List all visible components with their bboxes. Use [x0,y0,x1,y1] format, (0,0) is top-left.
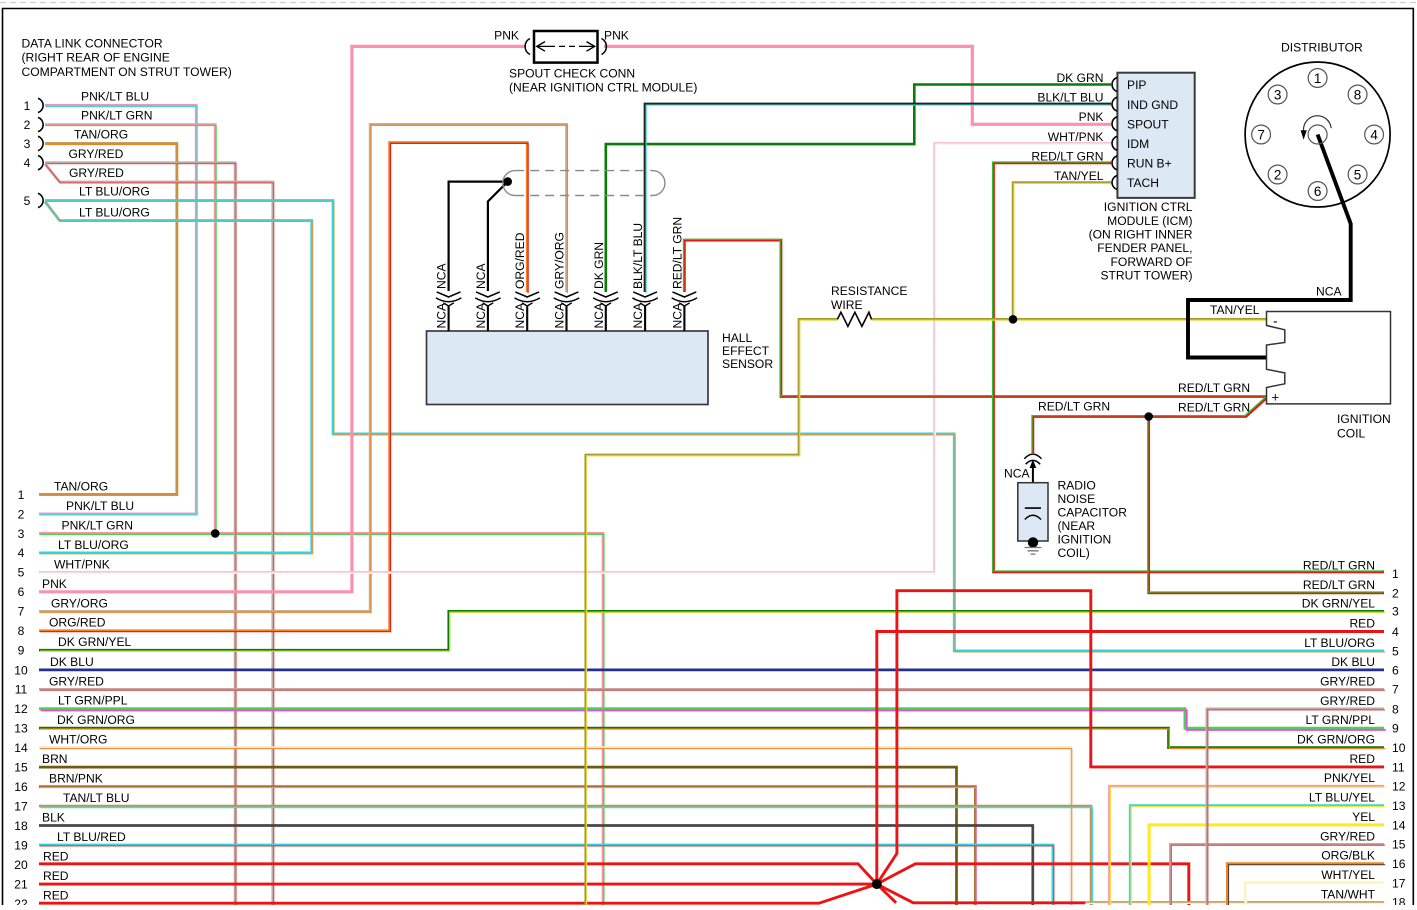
svg-text:GRY/RED: GRY/RED [1320,694,1375,708]
svg-text:PNK: PNK [1079,110,1104,124]
svg-text:NCA: NCA [670,302,684,328]
svg-text:ORG/BLK: ORG/BLK [1321,849,1375,863]
svg-text:COIL): COIL) [1058,546,1090,560]
svg-text:18: 18 [1392,896,1406,905]
svg-text:TACH: TACH [1127,176,1159,190]
svg-text:-: - [1273,313,1278,329]
svg-text:RED/LT GRN: RED/LT GRN [1178,381,1250,395]
svg-text:16: 16 [14,780,28,794]
svg-text:LT BLU/ORG: LT BLU/ORG [58,538,129,552]
svg-text:13: 13 [14,722,28,736]
svg-text:LT BLU/RED: LT BLU/RED [57,830,126,844]
svg-text:NCA: NCA [435,263,449,289]
svg-text:3: 3 [18,527,25,541]
svg-text:RED/LT GRN: RED/LT GRN [1303,559,1375,573]
svg-text:WHT/YEL: WHT/YEL [1321,868,1375,882]
svg-text:RED/LT GRN: RED/LT GRN [1031,149,1103,163]
svg-text:4: 4 [1370,127,1378,142]
svg-text:ORG/RED: ORG/RED [513,232,527,289]
svg-text:(RIGHT REAR OF ENGINE: (RIGHT REAR OF ENGINE [22,51,170,65]
svg-text:14: 14 [14,741,28,755]
svg-text:HALL: HALL [722,331,753,345]
svg-text:GRY/RED: GRY/RED [69,147,124,161]
svg-text:(NEAR IGNITION CTRL MODULE): (NEAR IGNITION CTRL MODULE) [509,81,697,95]
svg-text:WHT/PNK: WHT/PNK [1048,130,1104,144]
svg-text:TAN/YEL: TAN/YEL [1054,169,1104,183]
svg-text:COIL: COIL [1337,427,1366,441]
svg-text:GRY/RED: GRY/RED [1320,829,1375,843]
svg-text:WIRE: WIRE [831,298,863,312]
svg-text:1: 1 [24,99,31,113]
svg-text:1: 1 [1314,71,1322,86]
svg-text:NCA: NCA [435,302,449,328]
svg-text:BLK/LT BLU: BLK/LT BLU [1037,91,1103,105]
svg-text:GRY/ORG: GRY/ORG [51,596,108,610]
svg-text:4: 4 [1392,625,1399,639]
svg-text:1: 1 [18,488,25,502]
svg-text:BLK: BLK [42,811,65,825]
svg-text:SPOUT: SPOUT [1127,117,1169,131]
svg-text:2: 2 [18,507,25,521]
svg-text:DATA LINK CONNECTOR: DATA LINK CONNECTOR [22,37,163,51]
svg-text:7: 7 [18,605,25,619]
svg-text:GRY/RED: GRY/RED [69,166,124,180]
svg-text:RED: RED [1349,617,1375,631]
svg-text:DK GRN/YEL: DK GRN/YEL [1302,596,1376,610]
svg-text:SPOUT CHECK CONN: SPOUT CHECK CONN [509,67,635,81]
svg-text:IND GND: IND GND [1127,98,1178,112]
svg-text:STRUT TOWER): STRUT TOWER) [1100,269,1192,283]
svg-text:NOISE: NOISE [1058,492,1096,506]
svg-text:8: 8 [1392,702,1399,716]
svg-text:DK GRN: DK GRN [592,242,606,289]
svg-text:LT BLU/YEL: LT BLU/YEL [1309,791,1375,805]
svg-text:20: 20 [14,858,28,872]
svg-text:BLK/LT BLU: BLK/LT BLU [631,223,645,289]
svg-text:12: 12 [14,702,28,716]
svg-text:BRN/PNK: BRN/PNK [49,772,103,786]
svg-text:LT BLU/ORG: LT BLU/ORG [1304,636,1375,650]
svg-text:COMPARTMENT ON STRUT TOWER): COMPARTMENT ON STRUT TOWER) [22,65,232,79]
svg-text:15: 15 [14,761,28,775]
svg-text:RED: RED [43,850,69,864]
svg-text:IDM: IDM [1127,137,1149,151]
svg-text:DK BLU: DK BLU [50,655,94,669]
svg-text:DISTRIBUTOR: DISTRIBUTOR [1281,40,1363,54]
svg-text:GRY/RED: GRY/RED [49,674,104,688]
svg-text:TAN/LT BLU: TAN/LT BLU [63,791,130,805]
svg-text:LT BLU/ORG: LT BLU/ORG [79,185,150,199]
svg-text:DK GRN/ORG: DK GRN/ORG [57,713,135,727]
svg-text:14: 14 [1392,818,1406,832]
svg-text:NCA: NCA [474,263,488,289]
svg-text:RED/LT GRN: RED/LT GRN [1178,401,1250,415]
svg-text:DK BLU: DK BLU [1331,655,1375,669]
svg-text:WHT/PNK: WHT/PNK [54,557,110,571]
svg-text:NCA: NCA [631,302,645,328]
svg-text:NCA: NCA [513,302,527,328]
svg-text:8: 8 [1354,87,1362,102]
svg-text:NCA: NCA [1004,466,1030,480]
svg-text:RED: RED [43,888,69,902]
svg-text:TAN/WHT: TAN/WHT [1321,887,1376,901]
svg-text:6: 6 [1314,184,1322,199]
svg-text:PNK: PNK [42,577,67,591]
svg-text:8: 8 [18,624,25,638]
svg-text:21: 21 [14,878,28,892]
svg-text:6: 6 [18,585,25,599]
svg-text:5: 5 [24,194,31,208]
svg-text:PNK/LT BLU: PNK/LT BLU [81,90,149,104]
svg-text:9: 9 [1392,722,1399,736]
svg-text:4: 4 [24,156,31,170]
svg-text:3: 3 [1274,87,1282,102]
svg-text:PNK/LT GRN: PNK/LT GRN [81,109,152,123]
svg-text:(NEAR: (NEAR [1058,519,1096,533]
svg-text:RED/LT GRN: RED/LT GRN [1038,400,1110,414]
svg-text:2: 2 [24,118,31,132]
svg-text:DK GRN/YEL: DK GRN/YEL [58,635,132,649]
svg-text:+: + [1272,390,1280,405]
svg-text:LT GRN/PPL: LT GRN/PPL [58,694,128,708]
svg-text:BRN: BRN [42,752,68,766]
svg-text:PNK/LT BLU: PNK/LT BLU [66,499,134,513]
svg-text:17: 17 [14,799,28,813]
svg-text:IGNITION: IGNITION [1337,412,1391,426]
svg-text:16: 16 [1392,857,1406,871]
svg-text:22: 22 [14,897,28,905]
svg-text:TAN/ORG: TAN/ORG [54,479,108,493]
svg-text:RUN B+: RUN B+ [1127,157,1172,171]
svg-text:LT GRN/PPL: LT GRN/PPL [1306,713,1376,727]
svg-text:IGNITION CTRL: IGNITION CTRL [1104,200,1193,214]
svg-text:TAN/YEL: TAN/YEL [1210,303,1260,317]
svg-text:PNK/YEL: PNK/YEL [1324,771,1375,785]
svg-text:PNK: PNK [604,29,629,43]
svg-text:13: 13 [1392,799,1406,813]
svg-text:5: 5 [1392,644,1399,658]
svg-text:FENDER PANEL,: FENDER PANEL, [1097,241,1192,255]
svg-text:12: 12 [1392,780,1406,794]
svg-text:RED/LT GRN: RED/LT GRN [1303,578,1375,592]
svg-text:RED: RED [43,869,69,883]
svg-text:IGNITION: IGNITION [1058,532,1112,546]
svg-text:TAN/ORG: TAN/ORG [74,128,128,142]
svg-text:GRY/RED: GRY/RED [1320,674,1375,688]
svg-text:GRY/ORG: GRY/ORG [553,232,567,289]
svg-text:6: 6 [1392,663,1399,677]
svg-text:9: 9 [18,644,25,658]
svg-text:LT BLU/ORG: LT BLU/ORG [79,206,150,220]
svg-text:2: 2 [1274,167,1282,182]
svg-text:17: 17 [1392,876,1406,890]
svg-text:5: 5 [18,566,25,580]
svg-text:15: 15 [1392,838,1406,852]
svg-text:NCA: NCA [1316,285,1342,299]
svg-text:SENSOR: SENSOR [722,357,773,371]
svg-text:YEL: YEL [1352,810,1375,824]
svg-text:18: 18 [14,819,28,833]
svg-text:3: 3 [24,137,31,151]
svg-text:11: 11 [15,683,28,697]
svg-text:10: 10 [14,663,28,677]
svg-text:PNK/LT GRN: PNK/LT GRN [62,518,133,532]
svg-text:FORWARD OF: FORWARD OF [1111,255,1193,269]
svg-text:7: 7 [1392,683,1399,697]
svg-text:11: 11 [1392,760,1405,774]
svg-text:RED: RED [1349,752,1375,766]
svg-text:DK GRN/ORG: DK GRN/ORG [1297,733,1375,747]
svg-text:RED/LT GRN: RED/LT GRN [670,217,684,289]
svg-text:NCA: NCA [592,302,606,328]
svg-text:4: 4 [18,546,25,560]
svg-text:CAPACITOR: CAPACITOR [1058,505,1128,519]
svg-text:7: 7 [1257,127,1265,142]
svg-text:MODULE (ICM): MODULE (ICM) [1107,214,1192,228]
svg-text:NCA: NCA [553,302,567,328]
svg-text:EFFECT: EFFECT [722,344,770,358]
svg-text:ORG/RED: ORG/RED [49,616,106,630]
svg-text:NCA: NCA [474,302,488,328]
svg-text:DK GRN: DK GRN [1056,71,1103,85]
svg-text:WHT/ORG: WHT/ORG [49,733,107,747]
svg-text:5: 5 [1354,167,1362,182]
svg-text:2: 2 [1392,586,1399,600]
svg-text:10: 10 [1392,741,1406,755]
svg-text:PNK: PNK [494,29,519,43]
svg-text:3: 3 [1392,605,1399,619]
svg-text:1: 1 [1392,567,1399,581]
svg-text:PIP: PIP [1127,78,1147,92]
svg-text:RADIO: RADIO [1058,478,1096,492]
svg-text:(ON RIGHT INNER: (ON RIGHT INNER [1089,228,1193,242]
svg-text:RESISTANCE: RESISTANCE [831,284,907,298]
svg-text:19: 19 [14,838,28,852]
